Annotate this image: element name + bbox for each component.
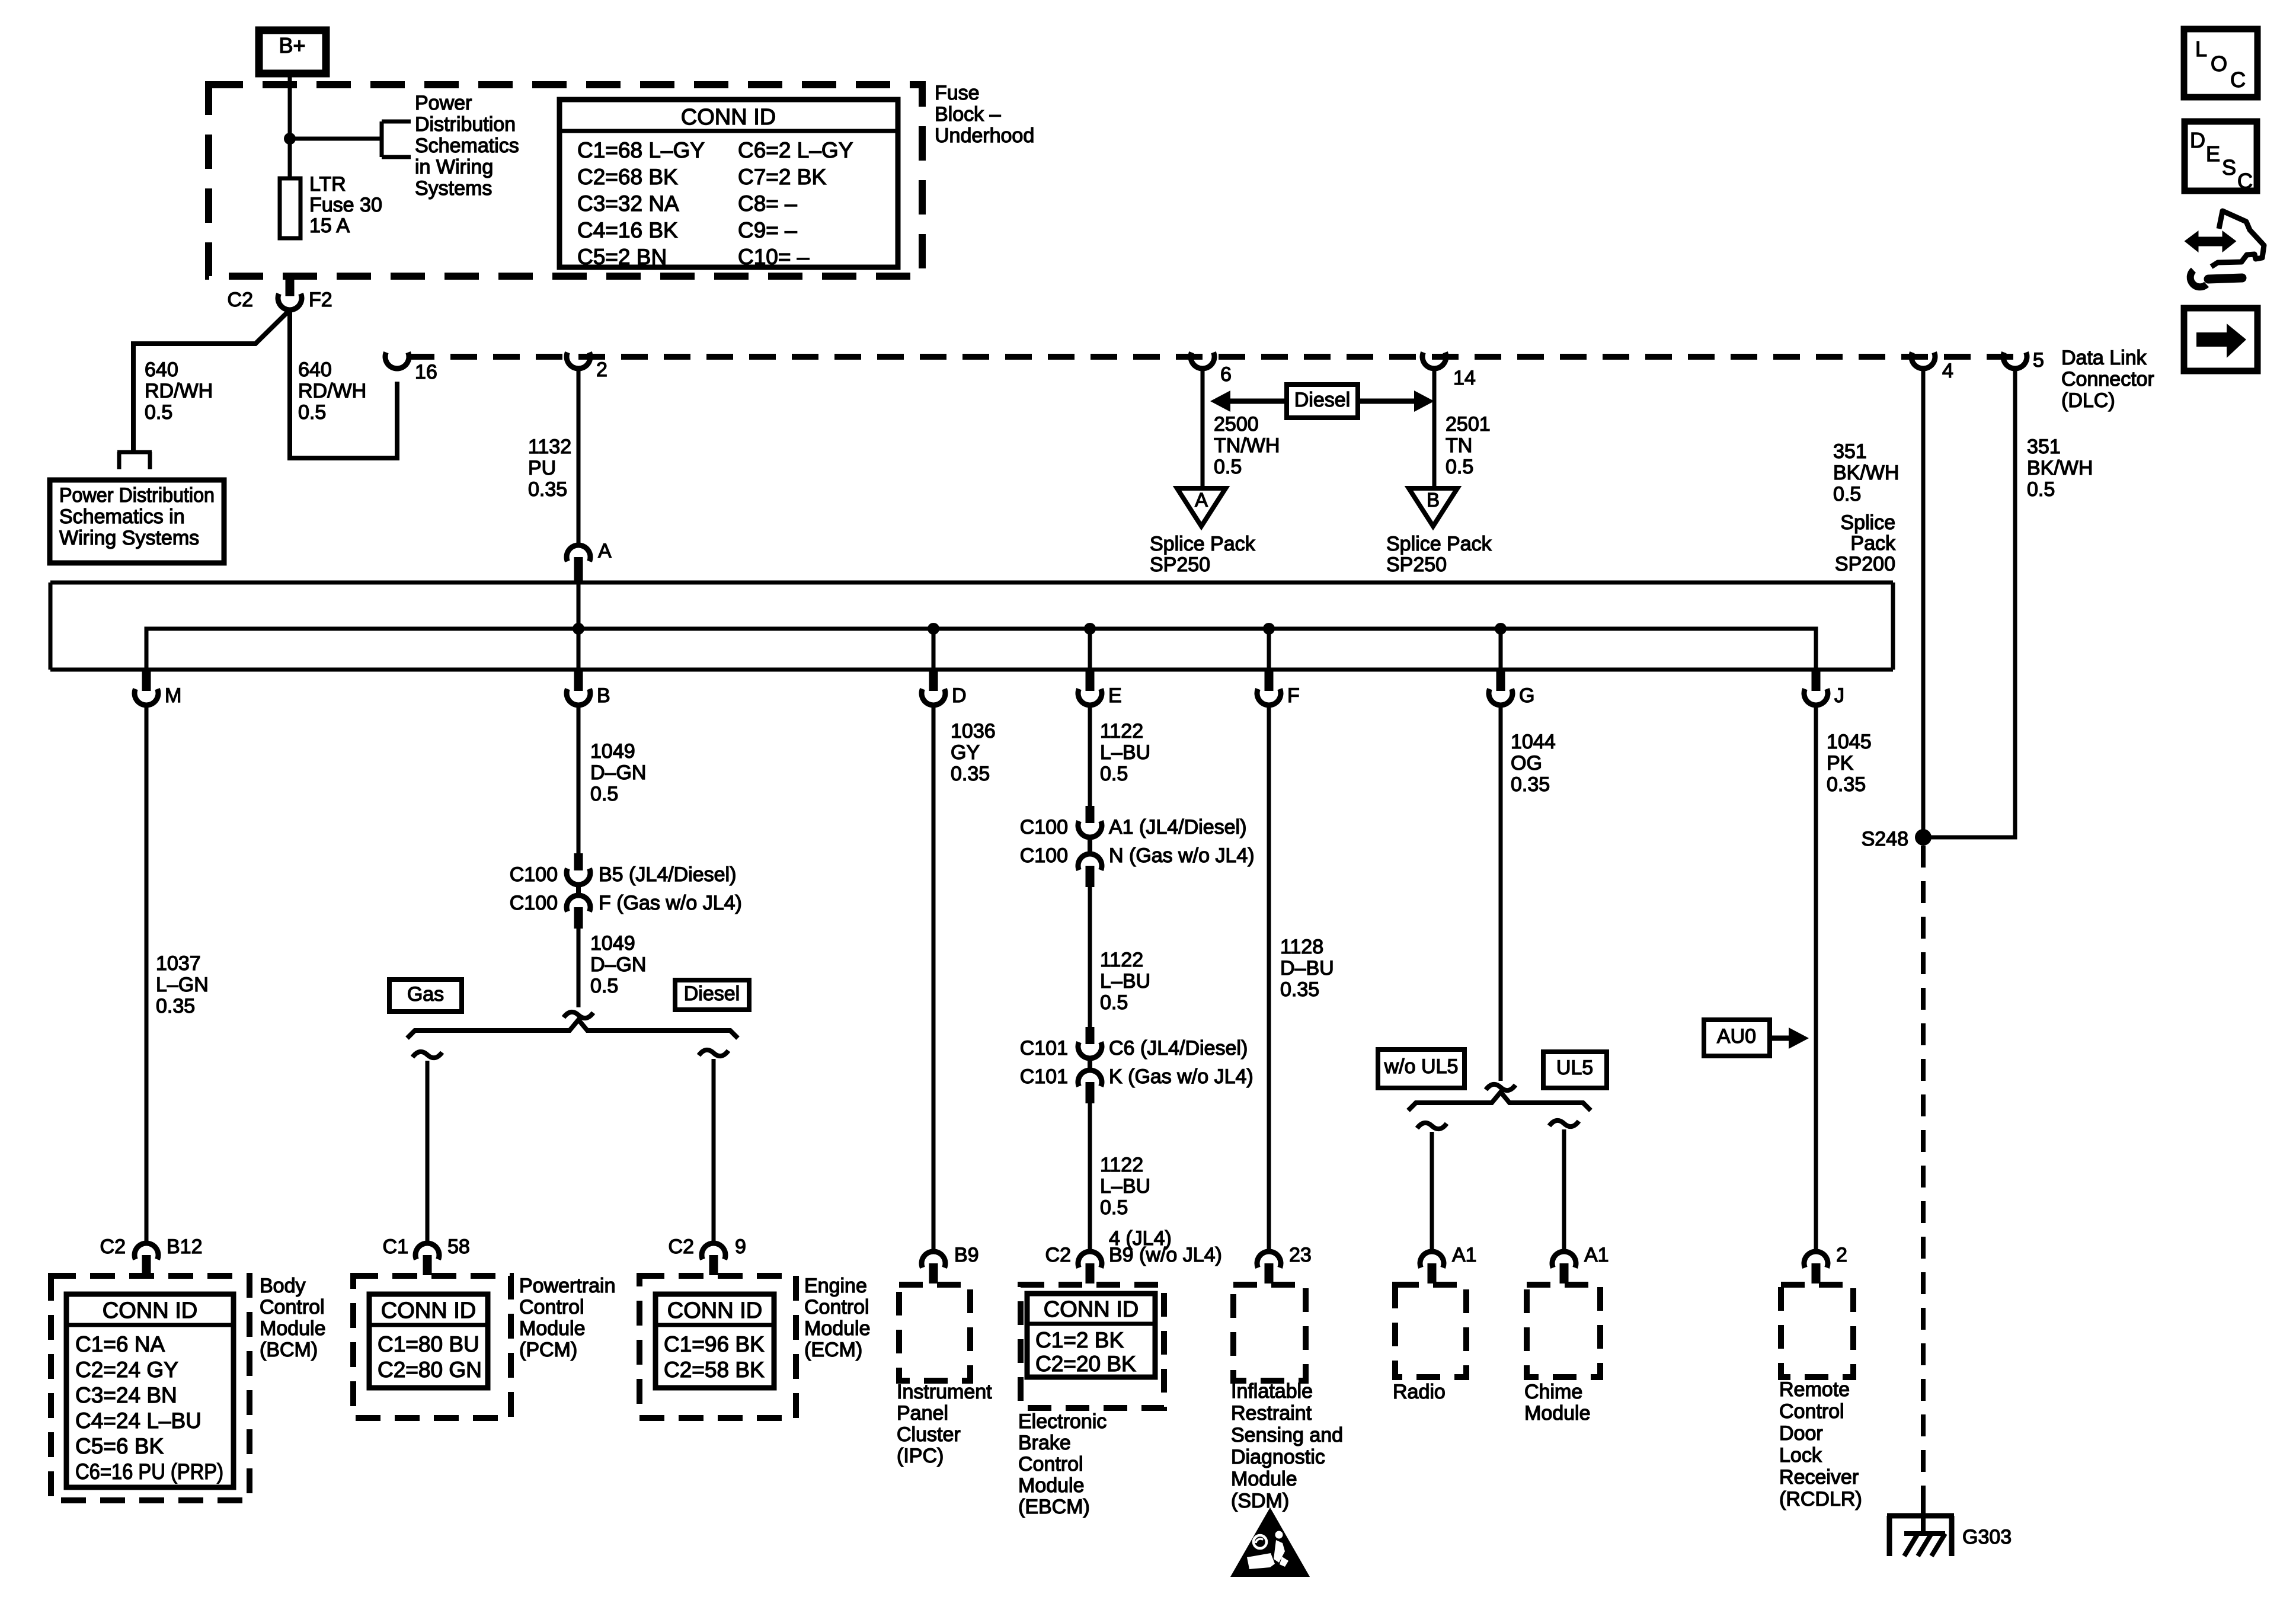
svg-text:Door: Door xyxy=(1779,1422,1823,1445)
splice pack SP250 triangle B xyxy=(1409,488,1457,526)
svg-text:B5 (JL4/Diesel): B5 (JL4/Diesel) xyxy=(599,863,736,886)
svg-text:B: B xyxy=(597,684,610,707)
svg-text:C100: C100 xyxy=(510,863,558,886)
svg-text:15 A: 15 A xyxy=(309,215,350,237)
svg-text:Schematics: Schematics xyxy=(415,135,519,157)
svg-text:Block –: Block – xyxy=(935,103,1001,126)
ground G303 xyxy=(1887,1516,2012,1556)
connector C2 F2 at fuse block xyxy=(228,274,332,311)
wire 640 RD/WH left branch to power distribution xyxy=(133,310,290,452)
svg-text:E: E xyxy=(1108,684,1122,707)
svg-text:B+: B+ xyxy=(279,33,305,57)
svg-text:2501: 2501 xyxy=(1446,413,1491,436)
bus vertical drop E xyxy=(1088,629,1092,670)
svg-text:C6 (JL4/Diesel): C6 (JL4/Diesel) xyxy=(1109,1037,1248,1060)
svg-text:2: 2 xyxy=(596,359,607,381)
bus vertical feed A to B xyxy=(577,584,581,670)
svg-text:Cluster: Cluster xyxy=(897,1423,961,1446)
connector 2 at RCDLR xyxy=(1804,1244,1847,1283)
svg-text:Module: Module xyxy=(1018,1474,1085,1497)
svg-text:GY: GY xyxy=(951,741,980,764)
diesel option box lower xyxy=(675,980,749,1010)
svg-text:C3=32 NA: C3=32 NA xyxy=(577,191,679,216)
svg-text:SP200: SP200 xyxy=(1835,553,1895,575)
svg-text:TN: TN xyxy=(1446,434,1472,457)
svg-text:C4=16 BK: C4=16 BK xyxy=(577,218,678,242)
vehicle diagnosis icon xyxy=(2186,211,2264,287)
diesel option box with arrows xyxy=(1210,385,1434,418)
svg-text:Pack: Pack xyxy=(1850,532,1896,555)
svg-text:C2=20 BK: C2=20 BK xyxy=(1035,1352,1136,1376)
svg-text:C1=80 BU: C1=80 BU xyxy=(378,1332,479,1356)
dashed ground wire from S248 xyxy=(1921,846,1926,1498)
svg-text:0.35: 0.35 xyxy=(156,995,195,1017)
bus connector G xyxy=(1489,671,1534,707)
svg-text:C10= –: C10= – xyxy=(738,245,810,269)
EBCM dashed box xyxy=(1021,1285,1164,1408)
svg-text:C3=24 BN: C3=24 BN xyxy=(75,1383,177,1407)
svg-text:CONN ID: CONN ID xyxy=(103,1298,197,1323)
wire break at radio/chime split xyxy=(1486,1084,1515,1090)
svg-text:OG: OG xyxy=(1511,752,1542,774)
svg-text:C7=2 BK: C7=2 BK xyxy=(738,165,826,189)
bus connector B xyxy=(567,671,610,707)
connector C1 58 at PCM xyxy=(383,1235,470,1275)
svg-text:Control: Control xyxy=(1779,1400,1844,1423)
svg-text:Engine: Engine xyxy=(804,1275,867,1297)
bus junction dot E xyxy=(1084,623,1096,635)
svg-text:Fuse 30: Fuse 30 xyxy=(309,194,382,216)
bus connector J xyxy=(1804,671,1844,707)
bus junction dot B xyxy=(573,623,584,635)
svg-text:SP250: SP250 xyxy=(1150,553,1210,576)
svg-text:C2=58 BK: C2=58 BK xyxy=(664,1358,765,1382)
EBCM CONN ID table xyxy=(1027,1294,1155,1377)
svg-text:Wiring Systems: Wiring Systems xyxy=(59,527,199,549)
svg-text:0.35: 0.35 xyxy=(951,763,990,785)
power feed B+ terminal xyxy=(259,30,326,73)
svg-text:Fuse: Fuse xyxy=(935,82,980,104)
svg-text:C5=6 BK: C5=6 BK xyxy=(75,1434,164,1458)
svg-text:BK/WH: BK/WH xyxy=(1833,462,1899,484)
svg-text:1122: 1122 xyxy=(1100,1154,1143,1176)
CONN ID table fuse block underhood xyxy=(559,100,898,269)
svg-text:(SDM): (SDM) xyxy=(1231,1490,1289,1512)
connector C101 C6/K inline xyxy=(1020,1027,1253,1103)
bus connector E xyxy=(1078,671,1122,707)
svg-text:Lock: Lock xyxy=(1779,1444,1822,1467)
svg-text:C2: C2 xyxy=(1045,1244,1071,1266)
svg-text:351: 351 xyxy=(1833,440,1867,463)
IPC dashed box xyxy=(899,1285,970,1381)
reference bracket above power distribution box xyxy=(117,452,152,469)
svg-text:Radio: Radio xyxy=(1393,1381,1446,1403)
splice pack bus inner rail xyxy=(146,629,1816,670)
svg-text:Electronic: Electronic xyxy=(1018,1410,1107,1433)
bus vertical drop F xyxy=(1267,629,1271,670)
svg-text:RD/WH: RD/WH xyxy=(298,380,366,402)
wire 1122 L-BU lower xyxy=(1088,1103,1092,1251)
svg-text:2500: 2500 xyxy=(1214,413,1259,436)
svg-text:Diesel: Diesel xyxy=(1294,389,1350,411)
fuse LTR Fuse 30 15A xyxy=(280,173,382,238)
wire 1045 PK xyxy=(1814,706,1818,1251)
svg-text:C1=68 L–GY: C1=68 L–GY xyxy=(577,138,705,162)
connector 23 at SDM xyxy=(1257,1244,1312,1283)
wire 1036 GY xyxy=(932,706,936,1251)
wire 640 RD/WH right branch to fuse block terminal 16 xyxy=(290,311,397,458)
wire 1122 L-BU middle xyxy=(1088,887,1092,1027)
svg-text:Connector: Connector xyxy=(2061,368,2154,391)
svg-text:0.5: 0.5 xyxy=(1100,991,1128,1014)
svg-text:640: 640 xyxy=(145,359,178,381)
SDM dashed box xyxy=(1233,1285,1306,1381)
connector 16 xyxy=(385,353,437,383)
svg-text:5: 5 xyxy=(2033,349,2044,372)
svg-text:CONN ID: CONN ID xyxy=(381,1298,476,1323)
chime branch wire xyxy=(1549,1121,1579,1251)
class 2 serial data dashed line xyxy=(408,354,2022,360)
svg-text:58: 58 xyxy=(447,1235,470,1258)
svg-text:0.5: 0.5 xyxy=(1446,456,1473,478)
wire 1122 L-BU upper xyxy=(1088,706,1092,806)
svg-text:E: E xyxy=(2206,142,2220,166)
svg-text:(EBCM): (EBCM) xyxy=(1018,1496,1090,1518)
svg-text:B12: B12 xyxy=(167,1235,203,1258)
bus junction dot F xyxy=(1263,623,1275,635)
svg-text:0.5: 0.5 xyxy=(590,783,618,805)
connector A1 at chime xyxy=(1552,1244,1609,1283)
svg-text:RD/WH: RD/WH xyxy=(145,380,213,402)
svg-text:C1=6 NA: C1=6 NA xyxy=(75,1332,165,1356)
svg-text:0.5: 0.5 xyxy=(145,401,172,424)
svg-text:Control: Control xyxy=(260,1296,325,1318)
svg-text:Inflatable: Inflatable xyxy=(1231,1380,1313,1403)
svg-text:Splice: Splice xyxy=(1840,511,1895,534)
svg-text:Diesel: Diesel xyxy=(684,982,740,1005)
svg-text:0.35: 0.35 xyxy=(1280,978,1319,1001)
svg-text:6: 6 xyxy=(1220,363,1232,386)
forward reference arrow icon box xyxy=(2184,308,2257,371)
junction dot fuse block feed xyxy=(284,133,296,145)
bus vertical drop D xyxy=(932,629,936,670)
wire 1037 L-GN xyxy=(145,706,149,1243)
svg-text:Brake: Brake xyxy=(1018,1432,1071,1454)
ECM dashed box xyxy=(639,1276,796,1418)
connector 6 xyxy=(1191,353,1232,386)
connector C2 9 at ECM xyxy=(669,1235,746,1275)
svg-text:Module: Module xyxy=(1524,1402,1591,1425)
connector A at splice pack xyxy=(567,540,612,584)
svg-text:Distribution: Distribution xyxy=(415,113,516,136)
svg-text:Module: Module xyxy=(260,1317,326,1340)
svg-text:1049: 1049 xyxy=(590,932,635,955)
gas option box xyxy=(389,980,462,1012)
svg-text:1045: 1045 xyxy=(1827,731,1872,753)
connector 2 xyxy=(567,353,607,381)
svg-text:Power Distribution: Power Distribution xyxy=(59,484,215,507)
svg-text:L–GN: L–GN xyxy=(156,974,209,996)
svg-text:1037: 1037 xyxy=(156,952,201,975)
svg-text:4: 4 xyxy=(1942,360,1953,382)
svg-text:C6=16 PU (PRP): C6=16 PU (PRP) xyxy=(75,1459,223,1484)
svg-text:A1: A1 xyxy=(1584,1244,1609,1266)
svg-text:G303: G303 xyxy=(1962,1526,2012,1548)
svg-text:C100: C100 xyxy=(1020,816,1068,838)
connector 14 xyxy=(1422,353,1476,389)
svg-text:Control: Control xyxy=(519,1296,584,1318)
svg-text:Gas: Gas xyxy=(407,983,444,1006)
svg-text:(PCM): (PCM) xyxy=(519,1339,577,1361)
svg-text:Remote: Remote xyxy=(1779,1378,1850,1401)
bus junction dot G xyxy=(1495,623,1507,635)
svg-text:1128: 1128 xyxy=(1280,936,1323,958)
w/o UL5 option box xyxy=(1378,1049,1464,1088)
bus junction dot D xyxy=(928,623,939,635)
svg-text:A: A xyxy=(598,540,612,562)
svg-text:K (Gas w/o JL4): K (Gas w/o JL4) xyxy=(1109,1065,1253,1088)
svg-text:L–BU: L–BU xyxy=(1100,1175,1150,1198)
svg-text:C2: C2 xyxy=(669,1235,694,1258)
bus connector M xyxy=(135,671,181,707)
svg-text:Powertrain: Powertrain xyxy=(519,1275,616,1297)
svg-text:0.35: 0.35 xyxy=(1511,773,1550,796)
svg-text:A1 (JL4/Diesel): A1 (JL4/Diesel) xyxy=(1109,816,1246,838)
UL5 option box xyxy=(1543,1052,1607,1088)
wire 1128 D-BU xyxy=(1267,706,1271,1251)
svg-text:Underhood: Underhood xyxy=(935,124,1034,147)
svg-text:SP250: SP250 xyxy=(1386,553,1447,576)
svg-text:0.5: 0.5 xyxy=(1833,483,1861,505)
connector C2 B12 at BCM xyxy=(100,1235,203,1275)
ECM CONN ID table xyxy=(655,1294,774,1388)
svg-text:Instrument: Instrument xyxy=(897,1381,992,1403)
svg-text:C1=2 BK: C1=2 BK xyxy=(1035,1328,1124,1352)
svg-text:1122: 1122 xyxy=(1100,949,1143,971)
splice pack SP200 bus outer rails xyxy=(50,582,1893,670)
svg-text:16: 16 xyxy=(415,361,437,383)
svg-text:Module: Module xyxy=(519,1317,586,1340)
wire B+ into fuse block xyxy=(288,73,292,178)
svg-text:C100: C100 xyxy=(510,892,558,914)
option split brace G xyxy=(1408,1092,1591,1110)
wire 2501 TN xyxy=(1432,370,1437,488)
svg-text:D: D xyxy=(2190,128,2205,152)
svg-text:(DLC): (DLC) xyxy=(2061,389,2115,412)
connector C100 A1/N inline xyxy=(1020,806,1255,887)
svg-text:1049: 1049 xyxy=(590,740,635,763)
svg-text:C9= –: C9= – xyxy=(738,218,797,242)
svg-text:C1=96 BK: C1=96 BK xyxy=(664,1332,765,1356)
splice S248 xyxy=(1862,828,1932,850)
svg-text:D–GN: D–GN xyxy=(590,761,646,784)
wire break at gas/diesel split xyxy=(564,1012,593,1018)
svg-text:C2: C2 xyxy=(100,1235,126,1258)
svg-text:C: C xyxy=(2230,68,2246,92)
svg-text:A1: A1 xyxy=(1452,1244,1477,1266)
svg-text:C101: C101 xyxy=(1020,1037,1068,1060)
svg-text:CONN ID: CONN ID xyxy=(667,1298,762,1323)
wire 1049 D-GN lower xyxy=(577,929,581,1007)
connector C2 B9 at EBCM xyxy=(1045,1227,1222,1283)
svg-text:N (Gas w/o JL4): N (Gas w/o JL4) xyxy=(1109,844,1255,867)
wire 1132 PU xyxy=(577,370,581,545)
svg-text:L–BU: L–BU xyxy=(1100,741,1150,764)
svg-text:A: A xyxy=(1195,489,1208,511)
svg-text:(ECM): (ECM) xyxy=(804,1339,862,1361)
RCDLR dashed box xyxy=(1781,1285,1853,1377)
svg-text:L–BU: L–BU xyxy=(1100,970,1150,993)
svg-text:J: J xyxy=(1834,684,1844,707)
svg-text:C100: C100 xyxy=(1020,844,1068,867)
svg-text:M: M xyxy=(165,684,181,707)
svg-text:B9: B9 xyxy=(954,1244,979,1266)
DESC icon box xyxy=(2185,121,2257,193)
BCM dashed box xyxy=(51,1276,250,1500)
svg-text:C2=68 BK: C2=68 BK xyxy=(577,165,678,189)
svg-text:S248: S248 xyxy=(1862,828,1908,850)
svg-text:9: 9 xyxy=(735,1235,746,1258)
svg-text:C8= –: C8= – xyxy=(738,191,797,216)
svg-text:Schematics in: Schematics in xyxy=(59,505,185,528)
svg-text:PU: PU xyxy=(528,457,556,479)
svg-text:BK/WH: BK/WH xyxy=(2027,457,2093,479)
svg-text:C4=24 L–BU: C4=24 L–BU xyxy=(75,1409,202,1433)
AU0 option box with arrow xyxy=(1704,1020,1809,1056)
radio dashed box xyxy=(1395,1285,1466,1377)
wire 2500 TN/WH xyxy=(1201,370,1205,488)
svg-text:1036: 1036 xyxy=(951,720,996,742)
connector 5 xyxy=(2003,349,2044,372)
svg-text:F: F xyxy=(1287,684,1300,707)
svg-text:0.35: 0.35 xyxy=(1827,773,1866,796)
chime dashed box xyxy=(1527,1285,1600,1377)
svg-text:2: 2 xyxy=(1836,1244,1847,1266)
svg-text:Body: Body xyxy=(260,1275,306,1297)
svg-text:Splice Pack: Splice Pack xyxy=(1386,533,1492,555)
bus connector D xyxy=(922,671,967,707)
connector A1 at radio xyxy=(1420,1244,1477,1283)
svg-text:C2=80 GN: C2=80 GN xyxy=(378,1358,482,1382)
svg-text:C5=2 BN: C5=2 BN xyxy=(577,245,667,269)
svg-text:Sensing and: Sensing and xyxy=(1231,1424,1343,1446)
svg-text:Power: Power xyxy=(415,92,472,114)
svg-text:L: L xyxy=(2195,37,2207,61)
svg-text:23: 23 xyxy=(1289,1244,1312,1266)
svg-text:C: C xyxy=(2237,169,2253,193)
svg-text:0.5: 0.5 xyxy=(2027,478,2055,501)
svg-text:UL5: UL5 xyxy=(1556,1057,1593,1079)
option split brace B xyxy=(407,1020,738,1038)
svg-text:(RCDLR): (RCDLR) xyxy=(1779,1488,1862,1510)
svg-text:CONN ID: CONN ID xyxy=(1044,1297,1139,1322)
svg-text:LTR: LTR xyxy=(309,173,346,196)
svg-text:0.5: 0.5 xyxy=(298,401,326,424)
svg-text:(IPC): (IPC) xyxy=(897,1445,944,1467)
svg-text:F (Gas w/o JL4): F (Gas w/o JL4) xyxy=(599,892,742,914)
svg-text:Restraint: Restraint xyxy=(1231,1402,1312,1425)
svg-text:G: G xyxy=(1519,684,1534,707)
svg-text:Module: Module xyxy=(1231,1468,1297,1490)
diesel branch wire to ECM xyxy=(699,1050,728,1243)
svg-text:w/o UL5: w/o UL5 xyxy=(1384,1055,1459,1078)
power distribution schematics reference box xyxy=(50,480,224,563)
connector B9 at IPC xyxy=(922,1244,979,1283)
PCM dashed box xyxy=(353,1276,511,1418)
svg-text:D–BU: D–BU xyxy=(1280,957,1334,980)
svg-text:(BCM): (BCM) xyxy=(260,1339,318,1361)
fuse block underhood dashed box xyxy=(209,85,922,276)
svg-text:Control: Control xyxy=(1018,1453,1083,1475)
wire 351 BK/WH terminal 4 xyxy=(1921,370,1926,837)
BCM CONN ID table xyxy=(66,1294,234,1487)
splice pack SP250 triangle A xyxy=(1177,488,1226,526)
svg-text:O: O xyxy=(2211,52,2227,76)
svg-text:Systems: Systems xyxy=(415,177,492,200)
bus vertical drop G xyxy=(1499,629,1503,670)
svg-text:C6=2 L–GY: C6=2 L–GY xyxy=(738,138,853,162)
connector C100 B5/F inline xyxy=(510,853,742,929)
svg-text:1044: 1044 xyxy=(1511,731,1556,753)
svg-text:0.5: 0.5 xyxy=(1100,763,1128,785)
svg-text:B: B xyxy=(1427,489,1440,511)
svg-text:D: D xyxy=(952,684,967,707)
airbag warning triangle xyxy=(1230,1507,1310,1577)
svg-text:C2: C2 xyxy=(228,289,253,311)
radio branch wire xyxy=(1417,1123,1447,1251)
svg-text:in Wiring: in Wiring xyxy=(415,156,493,178)
PCM CONN ID table xyxy=(369,1294,488,1388)
svg-text:Receiver: Receiver xyxy=(1779,1466,1859,1489)
connector 4 xyxy=(1911,353,1953,382)
svg-text:Chime: Chime xyxy=(1524,1381,1582,1403)
svg-text:D–GN: D–GN xyxy=(590,953,646,976)
reference bracket xyxy=(382,121,411,157)
svg-text:S: S xyxy=(2222,155,2236,180)
svg-text:TN/WH: TN/WH xyxy=(1214,434,1280,457)
svg-text:0.5: 0.5 xyxy=(1100,1196,1128,1219)
svg-text:PK: PK xyxy=(1827,752,1854,774)
svg-text:AU0: AU0 xyxy=(1717,1025,1756,1048)
svg-text:1132: 1132 xyxy=(528,436,571,458)
svg-text:Diagnostic: Diagnostic xyxy=(1231,1446,1325,1468)
svg-text:Splice Pack: Splice Pack xyxy=(1150,533,1256,555)
svg-text:Module: Module xyxy=(804,1317,871,1340)
svg-text:0.5: 0.5 xyxy=(1214,456,1242,478)
svg-text:F2: F2 xyxy=(309,289,332,311)
svg-text:Control: Control xyxy=(804,1296,869,1318)
svg-text:1122: 1122 xyxy=(1100,720,1143,742)
wire to power distribution reference bracket xyxy=(290,137,382,141)
bus connector F xyxy=(1257,671,1300,707)
wire 1044 OG xyxy=(1499,706,1503,1081)
svg-text:C2=24 GY: C2=24 GY xyxy=(75,1358,178,1382)
svg-text:640: 640 xyxy=(298,359,332,381)
svg-text:351: 351 xyxy=(2027,436,2061,458)
svg-text:Data Link: Data Link xyxy=(2061,347,2147,369)
gas branch wire to PCM xyxy=(412,1052,442,1243)
LOC icon box xyxy=(2184,29,2257,97)
wire 1049 D-GN upper xyxy=(577,706,581,853)
svg-text:0.35: 0.35 xyxy=(528,478,567,501)
svg-text:0.5: 0.5 xyxy=(590,975,618,997)
wire 351 BK/WH terminal 5 xyxy=(1923,370,2015,837)
svg-text:B9 (w/o JL4): B9 (w/o JL4) xyxy=(1109,1244,1222,1266)
svg-text:14: 14 xyxy=(1453,367,1476,389)
svg-text:Panel: Panel xyxy=(897,1402,948,1425)
svg-text:C101: C101 xyxy=(1020,1065,1068,1088)
ground wire tail xyxy=(1921,1496,1926,1534)
